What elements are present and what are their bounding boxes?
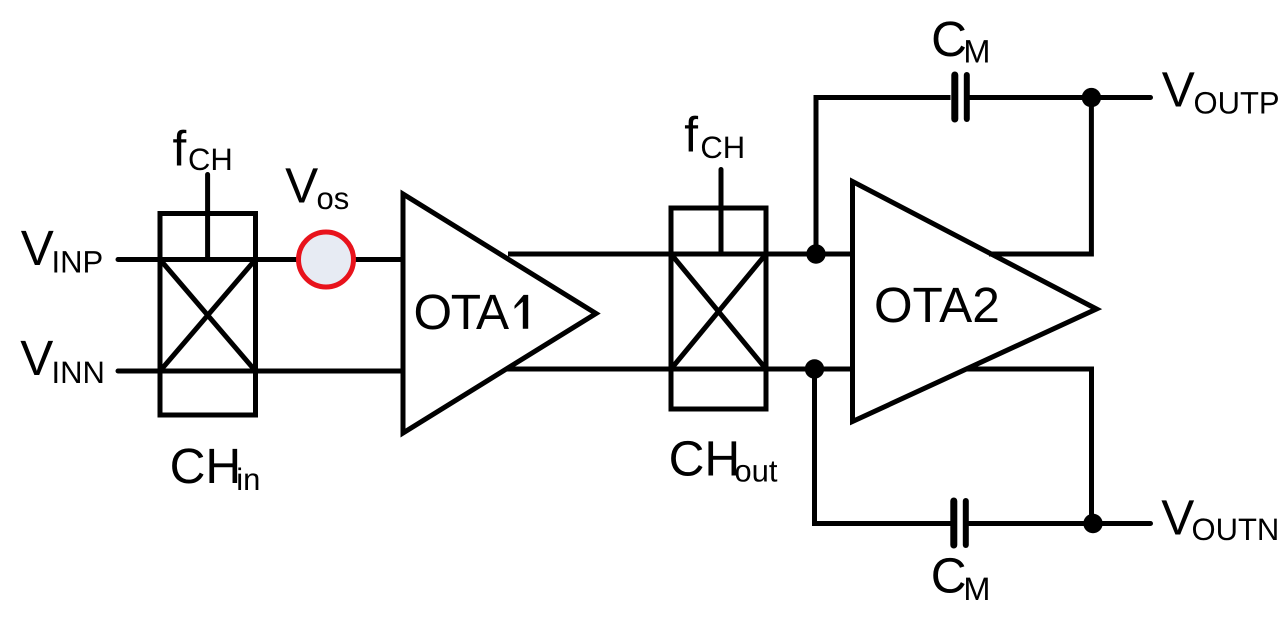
chopper CH_out box [671, 208, 766, 409]
node junction dot OTA2 bottom input [805, 359, 824, 378]
capacitor C_M top left plate [951, 75, 958, 119]
svg-text:in: in [236, 462, 260, 497]
svg-text:V: V [20, 330, 53, 386]
chopper CH_in box [160, 214, 256, 416]
node junction dot V_OUTP [1082, 88, 1101, 107]
svg-text:OUTN: OUTN [1192, 512, 1280, 547]
svg-text:OTA: OTA [413, 284, 509, 340]
op-amp OTA1 [403, 194, 596, 433]
svg-text:INN: INN [52, 355, 105, 390]
svg-text:INP: INP [52, 245, 104, 280]
svg-text:V: V [1161, 490, 1194, 546]
svg-text:M: M [963, 34, 990, 70]
chopper CH_in cross diagonal 1 [160, 260, 256, 372]
capacitor C_M bottom right plate [963, 501, 969, 545]
wire OTA2 bottom output riser [966, 369, 1092, 524]
op-amp OTA2 [853, 182, 1097, 422]
chopper CH_in cross diagonal 2 [160, 260, 256, 372]
svg-text:OUTP: OUTP [1194, 86, 1280, 121]
wire OTA1 top output to OTA2 [508, 252, 853, 257]
capacitor C_M top right plate [964, 75, 970, 119]
chopper CH_out cross diagonal 2 [671, 254, 766, 369]
svg-text:V: V [285, 157, 318, 213]
svg-text:OTA2: OTA2 [874, 277, 1000, 333]
svg-text:CH: CH [188, 142, 233, 177]
svg-text:V: V [21, 220, 54, 276]
wire top feedback left segment [816, 98, 951, 255]
svg-text:f: f [173, 121, 187, 177]
wire OTA1 bottom output to OTA2 [507, 367, 853, 372]
wire f_CH clock stub 1 [205, 175, 210, 260]
wire bottom feedback right segment to V_OUTN [969, 521, 1151, 526]
wire V_INN input lead [118, 369, 403, 374]
node junction dot V_OUTN [1083, 514, 1102, 533]
svg-text:CH: CH [170, 438, 242, 494]
node junction dot OTA2 top input [806, 244, 825, 263]
wire top feedback right segment to V_OUTP [970, 95, 1151, 100]
svg-text:CH: CH [700, 130, 745, 165]
wire V_INP input lead [118, 257, 403, 262]
offset source V_os circle [299, 232, 354, 287]
svg-text:CH: CH [669, 431, 741, 487]
svg-text:f: f [684, 107, 698, 163]
capacitor C_M bottom left plate [950, 501, 957, 545]
wire OTA2 top output riser [989, 98, 1091, 255]
svg-text:C: C [931, 11, 967, 67]
svg-text:C: C [931, 548, 967, 604]
svg-text:os: os [317, 181, 350, 216]
chopper CH_out cross diagonal 1 [671, 254, 766, 369]
wire f_CH clock stub 2 [719, 170, 724, 255]
svg-text:M: M [963, 571, 990, 607]
svg-text:V: V [1162, 61, 1195, 117]
svg-text:out: out [734, 454, 777, 489]
wire bottom feedback left segment [815, 369, 951, 524]
